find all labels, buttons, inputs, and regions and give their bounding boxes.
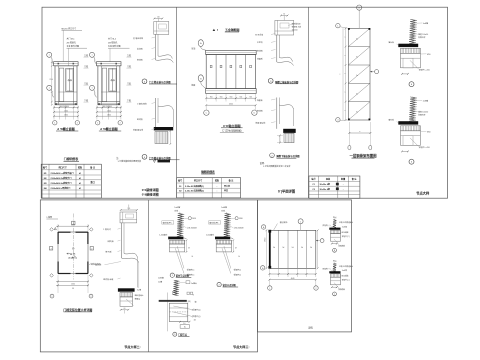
detail 4 wall section (panel1 lower-right) bbox=[155, 98, 157, 127]
svg-text:加强筋板: 加强筋板 bbox=[338, 288, 345, 291]
svg-text:900: 900 bbox=[210, 96, 213, 98]
panel3 embedment detail 6 bbox=[409, 19, 415, 43]
plan view axis circle bottom-left bbox=[50, 294, 54, 298]
door1 left vertical dimension bbox=[51, 62, 53, 105]
svg-text:8: 8 bbox=[334, 250, 335, 252]
section cut symbol door2 upper bbox=[90, 52, 95, 57]
svg-text:3d: 3d bbox=[194, 320, 196, 322]
svg-text:(!): (!) bbox=[72, 248, 74, 250]
detail 4 bubble label bbox=[142, 154, 147, 159]
plan view corner diamond BR bbox=[90, 274, 94, 278]
frameB axis circle bottom-2 bbox=[314, 286, 318, 290]
svg-text:隔断明细表: 隔断明细表 bbox=[201, 170, 215, 174]
svg-text:1: 1 bbox=[97, 123, 98, 125]
svg-text:120: 120 bbox=[157, 17, 160, 19]
partition schedule table bbox=[177, 178, 241, 198]
panel2 detail 3 bubble bbox=[268, 78, 273, 83]
top sheet border bbox=[42, 7, 448, 198]
svg-text:60: 60 bbox=[124, 308, 126, 310]
svg-text:2100: 2100 bbox=[49, 79, 53, 81]
frameB left dimension bbox=[265, 230, 267, 268]
svg-text:300 900 300: 300 900 300 bbox=[103, 106, 112, 108]
svg-text:9a: 9a bbox=[356, 38, 358, 40]
svg-text:a: a bbox=[359, 131, 360, 133]
svg-text:2: 2 bbox=[91, 248, 92, 250]
svg-text:300 900 300: 300 900 300 bbox=[60, 106, 69, 108]
svg-text:9d: 9d bbox=[301, 247, 303, 249]
svg-text:M10: M10 bbox=[427, 54, 431, 56]
svg-text:1800: 1800 bbox=[64, 115, 68, 117]
svg-text:9a: 9a bbox=[356, 112, 358, 114]
frameB axis circle bottom-1 bbox=[268, 286, 272, 290]
svg-text:0`9装修详图: 0`9装修详图 bbox=[142, 191, 159, 196]
frameB right dimension bbox=[317, 230, 319, 268]
panel2 detail 2 base box bbox=[284, 133, 294, 142]
plan view side tag left bbox=[49, 247, 52, 250]
frameB top axis leader bbox=[300, 224, 302, 230]
svg-text:M10: M10 bbox=[427, 131, 431, 133]
svg-text:1: 1 bbox=[269, 288, 270, 290]
svg-text:4500: 4500 bbox=[229, 103, 233, 105]
svg-text:1wM梁: 1wM梁 bbox=[342, 269, 348, 272]
detail 5 wall section (panel1 top-right) bbox=[154, 18, 162, 20]
panel2 title bbox=[213, 29, 216, 31]
partition bottom dimensions bbox=[205, 93, 207, 101]
svg-text:预埋件(一): 预埋件(一) bbox=[323, 224, 331, 227]
svg-text:4: 4 bbox=[337, 120, 338, 122]
svg-text:7: 7 bbox=[334, 294, 335, 296]
plan view walls bbox=[58, 232, 88, 274]
svg-text:2: 2 bbox=[77, 123, 78, 125]
svg-text:面层: 面层 bbox=[333, 260, 337, 263]
svg-text:门下槛安装节点详图: 门下槛安装节点详图 bbox=[149, 156, 171, 160]
panel3 schedule table bbox=[309, 176, 360, 198]
svg-text:2: 2 bbox=[120, 123, 121, 125]
svg-text:9d: 9d bbox=[292, 247, 294, 249]
svg-text:1: 1 bbox=[54, 123, 55, 125]
frameB axis circle bottom-left bbox=[261, 266, 265, 270]
svg-text:900: 900 bbox=[239, 96, 242, 98]
svg-text:节点大样二:: 节点大样二: bbox=[124, 344, 141, 349]
svg-text:900: 900 bbox=[220, 96, 223, 98]
svg-text:9a: 9a bbox=[356, 57, 358, 59]
bottom sheet A border bbox=[40, 200, 257, 352]
svg-text:3: 3 bbox=[174, 334, 175, 336]
svg-text:1: 1 bbox=[337, 26, 338, 28]
svg-text:9d: 9d bbox=[273, 247, 275, 249]
plan view side tag top bbox=[72, 221, 75, 224]
braced mullion axis circle top-left bbox=[336, 24, 340, 28]
partition axis circle left bbox=[204, 110, 209, 115]
braced mullion right marker bbox=[375, 70, 379, 74]
braced mullion bottom dimension bbox=[348, 122, 350, 146]
svg-text:9d: 9d bbox=[282, 247, 284, 249]
svg-text:C`(卫生间隔断图): C`(卫生间隔断图) bbox=[222, 129, 241, 133]
plan view corner diamond TR bbox=[90, 228, 94, 232]
svg-text:预埋件(一): 预埋件(一) bbox=[323, 268, 331, 271]
svg-text:一层钢骨架布置图: 一层钢骨架布置图 bbox=[349, 153, 377, 158]
svg-text:门樘明细表: 门樘明细表 bbox=[64, 156, 79, 161]
panel3 embedment detail 5 bbox=[409, 97, 415, 121]
svg-text:0`(平面详图: 0`(平面详图 bbox=[278, 188, 296, 193]
svg-text:1800: 1800 bbox=[107, 115, 111, 117]
svg-text:1: 1 bbox=[49, 88, 50, 90]
jamb section wall bbox=[121, 223, 123, 258]
svg-text:节点大样三:: 节点大样三: bbox=[233, 344, 250, 349]
partition axis circle right bbox=[252, 110, 257, 115]
svg-text:1: 1 bbox=[73, 223, 74, 225]
section cut symbol door1 lower bbox=[47, 85, 52, 90]
svg-text:1: 1 bbox=[49, 55, 50, 57]
braced mullion axis circle bottom-left bbox=[336, 118, 340, 122]
panel2 detail 2 bubble bbox=[270, 153, 275, 158]
svg-text:2: 2 bbox=[316, 288, 317, 290]
svg-text:1500: 1500 bbox=[64, 110, 68, 112]
detail 5 bubble label bbox=[142, 79, 147, 84]
svg-text:门上樘安装节点详图: 门上樘安装节点详图 bbox=[149, 80, 171, 84]
svg-text:五金隔断图: 五金隔断图 bbox=[225, 27, 240, 32]
svg-text:2: 2 bbox=[91, 296, 92, 298]
partition left cut symbol upper bbox=[198, 40, 203, 47]
top sheet panel divider 2 bbox=[308, 7, 310, 198]
svg-text:1000: 1000 bbox=[71, 284, 75, 286]
panel2 detail 2 wall bbox=[276, 98, 278, 129]
plan view corner diamond TL bbox=[50, 228, 54, 232]
svg-text:1: 1 bbox=[91, 88, 92, 90]
svg-text:加强筋板: 加强筋板 bbox=[338, 245, 345, 248]
braced mullion elevation bbox=[348, 28, 370, 120]
svg-text:900: 900 bbox=[249, 96, 252, 98]
svg-text:Jk: Jk bbox=[191, 256, 193, 258]
door schedule table bbox=[41, 164, 101, 198]
svg-text:1: 1 bbox=[91, 55, 92, 57]
jamb section base box bbox=[120, 293, 133, 297]
svg-text:M10: M10 bbox=[239, 218, 243, 220]
plan view axis circle bottom-right bbox=[89, 294, 93, 298]
svg-text:节点大样: 节点大样 bbox=[416, 191, 430, 196]
svg-text:9d: 9d bbox=[310, 247, 312, 249]
door elevation M1 (left) bbox=[54, 62, 79, 66]
svg-text:1: 1 bbox=[52, 296, 53, 298]
svg-text:2850: 2850 bbox=[264, 238, 266, 242]
braced mullion top leader bbox=[358, 10, 360, 28]
braced mullion left dimensions bbox=[345, 28, 347, 120]
frameB right marker bbox=[320, 239, 324, 243]
top sheet panel divider 1 bbox=[176, 7, 178, 198]
section cut symbol door1 upper bbox=[47, 52, 52, 57]
svg-text:预埋件(二): 预埋件(二) bbox=[342, 235, 350, 238]
svg-text:9a: 9a bbox=[356, 93, 358, 95]
frameB bottom dimensions bbox=[268, 268, 270, 277]
svg-text:预埋件(二): 预埋件(二) bbox=[342, 279, 350, 282]
frameB axis circle top-left bbox=[261, 225, 265, 229]
svg-text:60: 60 bbox=[283, 14, 285, 16]
svg-text:f: f bbox=[217, 28, 218, 32]
svg-text:C`D轴立面图: C`D轴立面图 bbox=[223, 123, 240, 128]
svg-text:d 'D棚立面图: d 'D棚立面图 bbox=[100, 126, 118, 131]
svg-text:900: 900 bbox=[230, 96, 233, 98]
svg-text:门樘安装位置大样详图: 门樘安装位置大样详图 bbox=[63, 307, 92, 312]
bottom sheet A divider bbox=[148, 200, 150, 352]
svg-text:4640: 4640 bbox=[291, 278, 295, 280]
svg-text:Jk: Jk bbox=[238, 256, 240, 258]
panel2 detail 3 wall bbox=[276, 35, 278, 62]
svg-text:100x50: 100x50 bbox=[292, 29, 298, 31]
partition left cut symbol lower bbox=[198, 75, 203, 82]
svg-text:9a: 9a bbox=[356, 75, 358, 77]
panel2 detail 3 head section bbox=[281, 15, 288, 17]
panel2 detail 2 black bar bbox=[283, 129, 296, 133]
svg-text:d 'D棚立面图: d 'D棚立面图 bbox=[57, 126, 75, 131]
svg-text:M10螺栓: M10螺栓 bbox=[342, 275, 349, 278]
plan view side tag right bbox=[90, 247, 93, 250]
svg-text:2: 2 bbox=[51, 248, 52, 250]
plan view corner diamond BL bbox=[50, 274, 54, 278]
svg-text:1500: 1500 bbox=[107, 110, 111, 112]
plan view bottom dimensions bbox=[57, 275, 59, 293]
partition elevation grid bbox=[206, 50, 257, 54]
section cut symbol door2 lower bbox=[90, 85, 95, 90]
frameB partition grid bbox=[269, 230, 315, 268]
door elevation M2 (right) bbox=[97, 62, 122, 66]
svg-text:M10螺栓: M10螺栓 bbox=[342, 231, 349, 234]
svg-text:面层: 面层 bbox=[333, 216, 337, 219]
svg-text:3: 3 bbox=[193, 294, 194, 296]
jamb section head box bbox=[121, 209, 137, 211]
svg-text:1wM梁: 1wM梁 bbox=[342, 226, 348, 229]
jamb section bottom dim bbox=[121, 309, 129, 311]
svg-text:M10: M10 bbox=[192, 218, 196, 220]
jamb section black bar bbox=[118, 288, 135, 291]
bottom sheet B border bbox=[258, 200, 352, 332]
